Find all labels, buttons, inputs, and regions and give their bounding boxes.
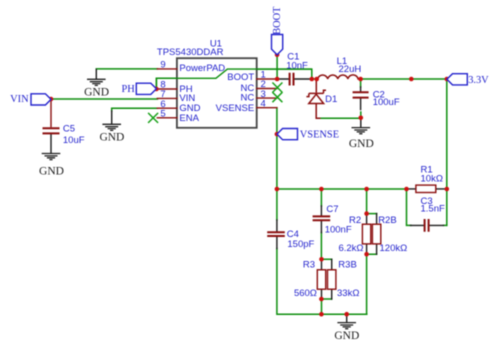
svg-text:PowerPAD: PowerPAD xyxy=(179,63,225,74)
svg-text:VSENSE: VSENSE xyxy=(216,103,255,114)
svg-text:1.5nF: 1.5nF xyxy=(421,204,445,215)
svg-text:GND: GND xyxy=(334,330,359,342)
svg-text:33kΩ: 33kΩ xyxy=(337,288,359,299)
svg-text:10kΩ: 10kΩ xyxy=(421,174,443,185)
svg-text:100nF: 100nF xyxy=(325,225,352,236)
svg-text:560Ω: 560Ω xyxy=(294,288,317,299)
svg-text:BOOT: BOOT xyxy=(272,6,283,35)
svg-text:D1: D1 xyxy=(325,94,337,105)
svg-text:GND: GND xyxy=(84,87,109,99)
svg-text:4: 4 xyxy=(261,98,266,109)
svg-text:GND: GND xyxy=(349,138,374,150)
svg-text:3.3V: 3.3V xyxy=(468,75,489,86)
svg-text:TPS5430DDAR: TPS5430DDAR xyxy=(157,47,224,58)
svg-text:10nF: 10nF xyxy=(286,61,308,72)
svg-text:R2: R2 xyxy=(349,215,361,226)
svg-text:PH: PH xyxy=(122,84,136,95)
svg-text:ENA: ENA xyxy=(179,113,199,124)
svg-text:150pF: 150pF xyxy=(287,239,314,250)
svg-text:C5: C5 xyxy=(63,124,75,135)
svg-text:BOOT: BOOT xyxy=(227,72,254,83)
svg-text:NC: NC xyxy=(240,93,254,104)
svg-text:5: 5 xyxy=(160,108,165,119)
svg-text:120kΩ: 120kΩ xyxy=(380,243,408,254)
svg-text:VSENSE: VSENSE xyxy=(300,129,339,140)
svg-text:GND: GND xyxy=(39,166,64,178)
svg-text:10uF: 10uF xyxy=(63,135,85,146)
svg-text:6.2kΩ: 6.2kΩ xyxy=(338,243,363,254)
svg-text:VIN: VIN xyxy=(10,94,29,105)
svg-text:GND: GND xyxy=(99,131,124,143)
svg-text:100uF: 100uF xyxy=(373,97,400,108)
svg-text:9: 9 xyxy=(160,60,165,71)
svg-text:R3: R3 xyxy=(303,260,315,271)
svg-text:C7: C7 xyxy=(326,204,338,215)
svg-text:22uH: 22uH xyxy=(339,64,362,75)
svg-text:R3B: R3B xyxy=(338,260,356,271)
svg-text:R2B: R2B xyxy=(378,215,396,226)
